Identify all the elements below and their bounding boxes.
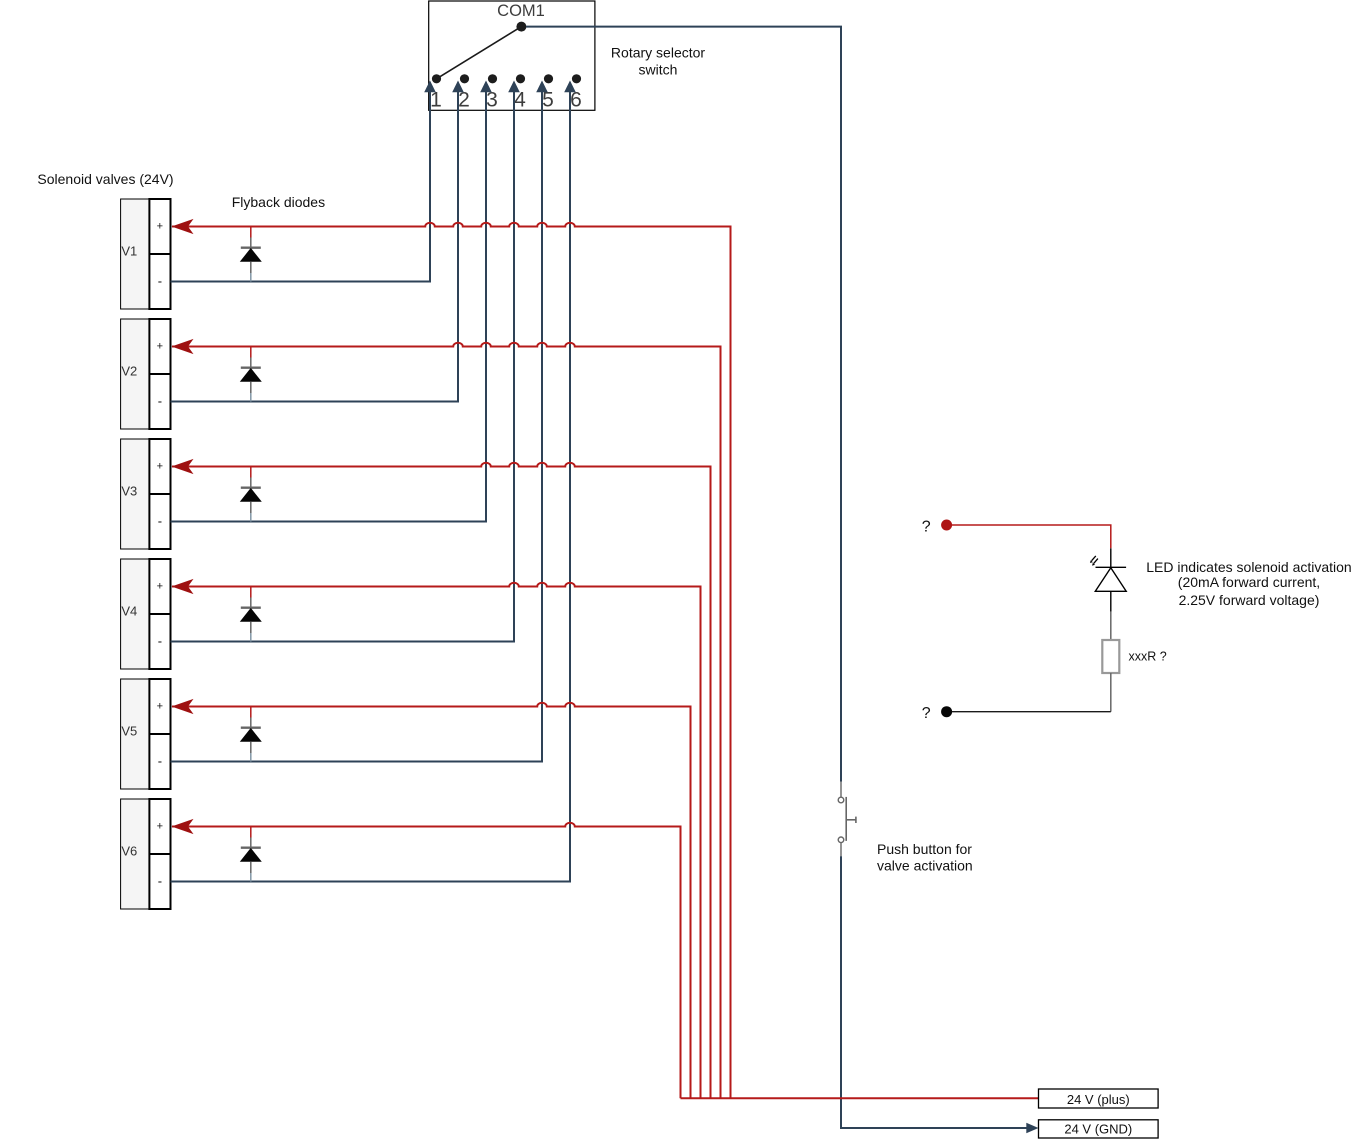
resistor R1 (xxxR) [1102, 640, 1119, 673]
arrowhead at rotary pin 3 [480, 81, 492, 93]
solenoid valve V5 (24V) terminal block [121, 679, 171, 789]
flyback diode D3 across V3 [240, 467, 262, 522]
svg-text:COM1: COM1 [497, 2, 545, 20]
node ? (negative, black) [941, 706, 952, 717]
arrowhead at rotary pin 6 [564, 81, 576, 93]
solenoid valve V1 (24V) terminal block [121, 199, 171, 309]
svg-text:+: + [157, 821, 163, 833]
24V plus bus wire (bottom) [681, 1097, 1039, 1099]
switch lever (COM1 to pin 1) [437, 27, 522, 79]
arrowhead into V6 + terminal [172, 819, 194, 834]
wire V6 minus terminal to rotary pin 6 [171, 86, 571, 882]
wire 24V plus supply to V3 + terminal (with hops) [172, 463, 711, 1099]
svg-text:Flyback diodes: Flyback diodes [232, 194, 325, 210]
arrowhead into V2 + terminal [172, 339, 194, 354]
solenoid valve V2 (24V) terminal block [121, 319, 171, 429]
24 V (GND) supply box [1039, 1120, 1159, 1138]
arrowhead at rotary pin 1 [424, 81, 436, 93]
svg-text:Solenoid valves (24V): Solenoid valves (24V) [37, 171, 173, 187]
arrowhead into V4 + terminal [172, 579, 194, 594]
svg-text:24 V (GND): 24 V (GND) [1064, 1122, 1132, 1137]
wire V1 minus terminal to rotary pin 1 [171, 86, 431, 282]
svg-text:+: + [157, 701, 163, 713]
svg-text:-: - [158, 753, 162, 768]
svg-text:-: - [158, 273, 162, 288]
wire 24V plus supply to V1 + terminal (with hops) [172, 223, 731, 1099]
svg-text:V5: V5 [121, 724, 137, 739]
arrowhead into 24 V (GND) box [1026, 1123, 1038, 1134]
svg-text:+: + [157, 221, 163, 233]
rotary switch pin 3 contact dot [488, 74, 497, 83]
flyback diode D1 across V1 [240, 227, 262, 282]
svg-text:-: - [158, 393, 162, 408]
rotary switch pin 1 contact dot [432, 74, 441, 83]
push button S1 (normally open) [838, 782, 856, 857]
svg-text:+: + [157, 581, 163, 593]
wire V2 minus terminal to rotary pin 2 [171, 86, 459, 402]
svg-text:?: ? [922, 519, 931, 536]
svg-text:V2: V2 [121, 364, 137, 379]
rotary switch pin 6 contact dot [572, 74, 581, 83]
svg-text:-: - [158, 633, 162, 648]
svg-text:LED indicates solenoid activat: LED indicates solenoid activation [1146, 559, 1351, 575]
solenoid valve V3 (24V) terminal block [121, 439, 171, 549]
wire LED cathode to resistor [1110, 591, 1112, 640]
svg-text:(20mA forward current,: (20mA forward current, [1178, 574, 1320, 590]
wire V4 minus terminal to rotary pin 4 [171, 86, 515, 642]
svg-text:?: ? [922, 705, 931, 722]
rotary switch pin 4 contact dot [516, 74, 525, 83]
wire COM1 common to push button (down right side) [526, 27, 841, 782]
node ? (positive, red) [941, 520, 952, 531]
svg-text:Rotary selector: Rotary selector [611, 45, 705, 61]
svg-text:+: + [157, 461, 163, 473]
wire push button to 24V GND box [841, 856, 1032, 1128]
svg-text:Push button for: Push button for [877, 841, 972, 857]
svg-text:-: - [158, 513, 162, 528]
svg-text:xxxR ?: xxxR ? [1129, 650, 1167, 664]
solenoid valve V4 (24V) terminal block [121, 559, 171, 669]
COM1 common node dot [516, 22, 526, 32]
rotary selector switch box COM1 [429, 1, 595, 110]
solenoid valve V6 (24V) terminal block [121, 799, 171, 909]
flyback diode D4 across V4 [240, 587, 262, 642]
arrowhead at rotary pin 2 [452, 81, 464, 93]
wire 24V plus supply to V5 + terminal (with hops) [172, 703, 691, 1099]
arrowhead at rotary pin 5 [536, 81, 548, 93]
svg-text:V3: V3 [121, 484, 137, 499]
svg-text:2.25V forward voltage): 2.25V forward voltage) [1179, 592, 1320, 608]
wire 24V plus supply to V6 + terminal (with hops) [172, 823, 681, 1098]
wire 24V plus supply to V4 + terminal (with hops) [172, 583, 701, 1099]
svg-text:switch: switch [639, 61, 678, 77]
wire ? positive to LED anode [952, 525, 1111, 548]
arrowhead into V3 + terminal [172, 459, 194, 474]
wire V3 minus terminal to rotary pin 3 [171, 86, 487, 522]
flyback diode D6 across V6 [240, 827, 262, 882]
svg-text:-: - [158, 873, 162, 888]
rotary switch pin 5 contact dot [544, 74, 553, 83]
svg-text:24 V (plus): 24 V (plus) [1067, 1092, 1130, 1107]
svg-text:valve activation: valve activation [877, 858, 973, 874]
rotary switch pin 2 contact dot [460, 74, 469, 83]
flyback diode D5 across V5 [240, 707, 262, 762]
wire V5 minus terminal to rotary pin 5 [171, 86, 543, 762]
wire red-to-LED black segment [1110, 548, 1112, 567]
LED emission arrows [1090, 556, 1098, 566]
arrowhead into V1 + terminal [172, 219, 194, 234]
svg-text:+: + [157, 341, 163, 353]
svg-text:V1: V1 [121, 244, 137, 259]
arrowhead into V5 + terminal [172, 699, 194, 714]
svg-text:V4: V4 [121, 604, 137, 619]
wire resistor to ? negative node [952, 673, 1111, 712]
flyback diode D2 across V2 [240, 347, 262, 402]
svg-text:V6: V6 [121, 844, 137, 859]
wire 24V plus supply to V2 + terminal (with hops) [172, 343, 721, 1099]
24 V (plus) supply box [1039, 1089, 1159, 1108]
arrowhead at rotary pin 4 [508, 81, 520, 93]
LED D7 symbol [1095, 567, 1126, 591]
